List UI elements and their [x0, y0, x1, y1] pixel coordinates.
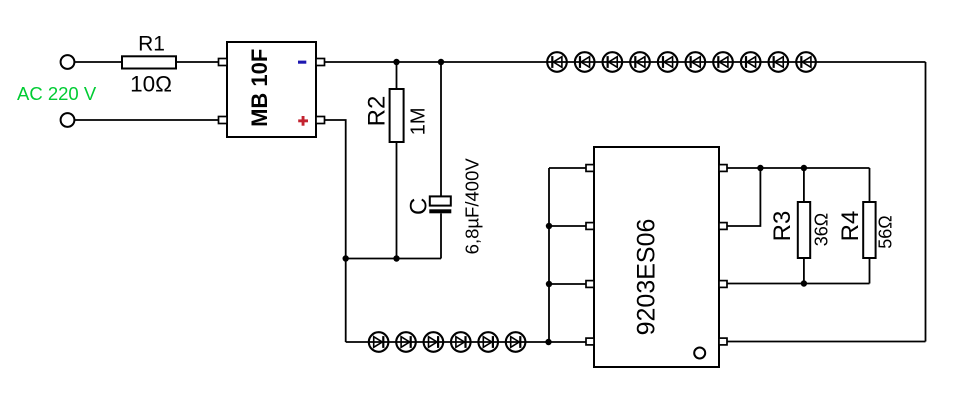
wire [549, 167, 586, 169]
pin tab (bridge right top) [316, 59, 325, 66]
junction node C top [438, 59, 444, 65]
LED top 3 [603, 52, 623, 72]
IC 9203ES06 [594, 147, 719, 367]
junction node bus pin3 [546, 281, 552, 287]
wire [869, 258, 871, 284]
wire [75, 119, 219, 121]
LED bottom 5 [478, 332, 498, 352]
LED top 5 [658, 52, 678, 72]
wire [440, 213, 442, 258]
wire [727, 167, 870, 169]
LED top 9 [769, 52, 789, 72]
capacitor C [429, 196, 451, 213]
svg-text:C: C [406, 198, 433, 215]
LED top 4 [630, 52, 650, 72]
svg-text:56Ω: 56Ω [876, 215, 896, 248]
LED bottom 3 [424, 332, 444, 352]
junction node plus rail [343, 255, 349, 261]
pin tab (IC left y=341.5) [586, 338, 594, 345]
plus polarity mark [298, 116, 308, 126]
svg-text:R2: R2 [364, 96, 391, 127]
junction node pin2 join [757, 165, 763, 171]
LED top 1 [547, 52, 567, 72]
junction node R2 top [393, 59, 399, 65]
svg-text:MB 10F: MB 10F [247, 49, 272, 127]
wire [549, 225, 586, 227]
svg-text:9203ES06: 9203ES06 [633, 219, 661, 336]
wire [325, 61, 926, 63]
wire [727, 168, 760, 226]
junction node R3 top [801, 165, 807, 171]
wire [727, 283, 870, 285]
wire [396, 62, 398, 89]
resistor R3 [798, 202, 810, 258]
svg-text:R4: R4 [837, 211, 864, 242]
svg-text:R1: R1 [138, 33, 165, 56]
LED top 8 [741, 52, 761, 72]
resistor R1 [122, 56, 176, 68]
svg-text:10Ω: 10Ω [130, 72, 172, 97]
wire [75, 61, 123, 63]
pin tab (IC left y=168) [586, 165, 594, 172]
svg-text:1M: 1M [407, 108, 429, 136]
wire [869, 168, 871, 202]
resistor R2 [390, 89, 404, 142]
pin tab (IC right y=341.5) [719, 338, 727, 345]
svg-text:36Ω: 36Ω [812, 213, 832, 246]
pin tab (IC right y=284) [719, 281, 727, 288]
svg-text:R3: R3 [769, 211, 796, 242]
pin tab (IC left y=226) [586, 223, 594, 230]
wire [396, 142, 398, 259]
wire (bottom right to IC pin) [727, 341, 926, 343]
wire [325, 120, 346, 342]
minus polarity mark [298, 61, 306, 64]
bridge rectifier MB 10F [227, 42, 316, 137]
LED top 2 [575, 52, 595, 72]
wire [803, 168, 805, 202]
wire (right edge vertical) [925, 62, 927, 342]
LED bottom 1 [369, 332, 389, 352]
LED top 7 [713, 52, 733, 72]
IC pin-1 marker circle [694, 348, 705, 359]
wire [549, 283, 586, 285]
pin tab (bridge left bottom) [219, 117, 228, 124]
pin tab (bridge left top) [219, 59, 228, 66]
wire [346, 341, 586, 343]
junction node R3 bottom [801, 280, 807, 286]
pin tab (IC right y=168) [719, 165, 727, 172]
LED top 10 [796, 52, 816, 72]
wire [346, 258, 441, 260]
resistor R4 [863, 202, 875, 258]
LED bottom 4 [451, 332, 471, 352]
terminal J1 (AC input top) [61, 55, 75, 69]
LED bottom 2 [396, 332, 416, 352]
svg-text:AC 220 V: AC 220 V [17, 83, 97, 104]
wire [440, 62, 442, 196]
wire [176, 61, 219, 63]
junction node bus pin2 [546, 223, 552, 229]
wire (IC left bus) [548, 168, 550, 342]
svg-text:6,8µF/400V: 6,8µF/400V [462, 158, 483, 255]
wire [803, 258, 805, 284]
pin tab (bridge right bottom) [316, 117, 325, 124]
LED top 6 [686, 52, 706, 72]
LED bottom 6 [506, 332, 526, 352]
junction node R2 bottom [393, 255, 399, 261]
junction node bus bottom [545, 339, 551, 345]
terminal J2 (AC input bottom) [61, 113, 75, 127]
pin tab (IC left y=284) [586, 281, 594, 288]
pin tab (IC right y=226) [719, 223, 727, 230]
